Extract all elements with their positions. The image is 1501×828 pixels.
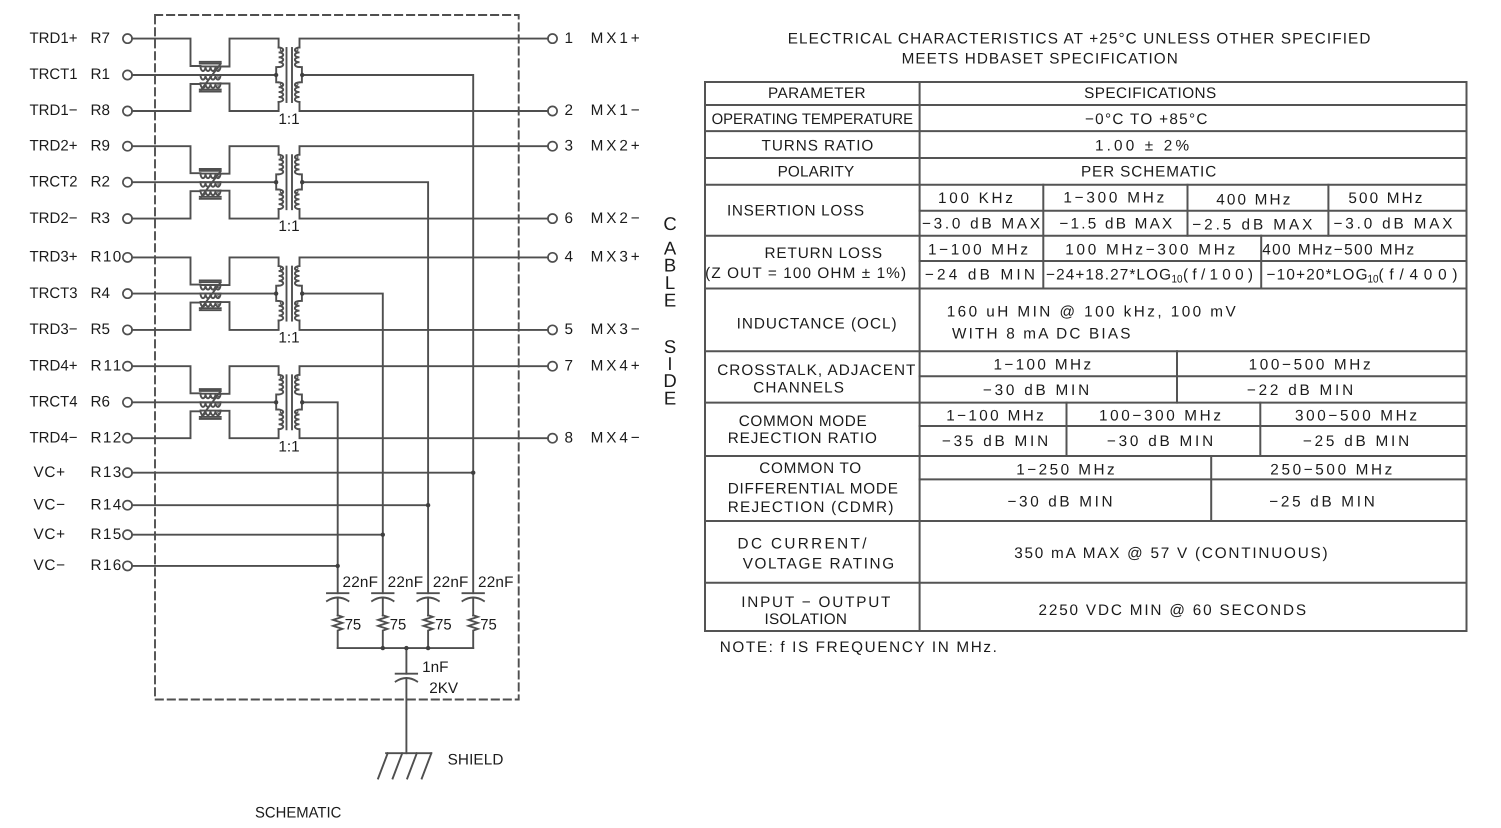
svg-text:−22 dB MIN: −22 dB MIN (1247, 382, 1353, 399)
svg-text:SPECIFICATIONS: SPECIFICATIONS (1084, 85, 1216, 102)
svg-text:PARAMETER: PARAMETER (768, 85, 866, 102)
svg-text:−25 dB MIN: −25 dB MIN (1269, 494, 1375, 511)
svg-text:100 MHz−300 MHz: 100 MHz−300 MHz (1065, 242, 1235, 259)
svg-text:R4: R4 (91, 285, 111, 302)
svg-text:5: 5 (565, 321, 574, 338)
svg-text:22nF: 22nF (433, 574, 469, 591)
svg-text:−25 dB MIN: −25 dB MIN (1303, 433, 1409, 450)
svg-text:TRCT2: TRCT2 (30, 173, 78, 190)
svg-text:MX4−: MX4− (591, 429, 640, 446)
svg-text:−24+18.27*LOG: −24+18.27*LOG (1046, 267, 1171, 284)
svg-text:INSERTION LOSS: INSERTION LOSS (727, 203, 864, 220)
svg-text:TRCT1: TRCT1 (30, 66, 78, 83)
svg-text:TRD3−: TRD3− (30, 321, 78, 338)
svg-text:1:1: 1:1 (278, 218, 299, 235)
svg-text:TRD3+: TRD3+ (30, 249, 78, 266)
svg-text:ELECTRICAL CHARACTERISTICS AT: ELECTRICAL CHARACTERISTICS AT +25°C UNLE… (788, 30, 1371, 47)
svg-text:R5: R5 (91, 321, 111, 338)
svg-text:1:1: 1:1 (278, 438, 299, 455)
svg-text:−2.5 dB MAX: −2.5 dB MAX (1192, 217, 1312, 234)
svg-text:R1: R1 (91, 66, 111, 83)
svg-text:VC+: VC+ (34, 464, 66, 481)
svg-text:OPERATING TEMPERATURE: OPERATING TEMPERATURE (712, 111, 913, 128)
svg-text:TRD2+: TRD2+ (30, 137, 78, 154)
svg-text:75: 75 (345, 617, 362, 634)
svg-text:75: 75 (435, 617, 452, 634)
svg-text:75: 75 (480, 617, 497, 634)
svg-text:TRD4−: TRD4− (30, 429, 78, 446)
svg-text:TRD1−: TRD1− (30, 102, 78, 119)
svg-text:100 KHz: 100 KHz (938, 190, 1013, 207)
svg-text:TRD1+: TRD1+ (30, 30, 78, 47)
svg-text:1−100 MHz: 1−100 MHz (946, 408, 1044, 425)
svg-text:ISOLATION: ISOLATION (765, 611, 847, 628)
svg-text:COMMON MODE: COMMON MODE (739, 413, 867, 430)
svg-text:MX2+: MX2+ (591, 137, 640, 154)
svg-text:DC CURRENT/: DC CURRENT/ (738, 536, 868, 553)
svg-text:CROSSTALK, ADJACENT: CROSSTALK, ADJACENT (717, 362, 915, 379)
svg-text:−30 dB MIN: −30 dB MIN (983, 382, 1089, 399)
svg-text:1:1: 1:1 (278, 111, 299, 128)
svg-text:−0°C TO +85°C: −0°C TO +85°C (1085, 111, 1208, 128)
svg-text:POLARITY: POLARITY (778, 164, 855, 181)
svg-text:−30 dB MIN: −30 dB MIN (1007, 494, 1112, 511)
svg-text:75: 75 (390, 617, 407, 634)
svg-text:160 uH MIN @ 100 kHz, 100 mV: 160 uH MIN @ 100 kHz, 100 mV (947, 303, 1237, 320)
svg-text:TRD4+: TRD4+ (30, 357, 78, 374)
svg-text:PER SCHEMATIC: PER SCHEMATIC (1081, 164, 1216, 181)
svg-text:VC−: VC− (34, 557, 66, 574)
svg-text:MX1+: MX1+ (591, 30, 640, 47)
svg-text:VC−: VC− (34, 496, 66, 513)
svg-text:2: 2 (565, 102, 574, 119)
svg-text:TRCT4: TRCT4 (30, 394, 78, 411)
svg-text:−30 dB MIN: −30 dB MIN (1107, 433, 1213, 450)
svg-text:R10: R10 (91, 249, 122, 266)
svg-text:MX1−: MX1− (591, 102, 640, 119)
svg-text:−10+20*LOG: −10+20*LOG (1267, 267, 1368, 284)
svg-text:R15: R15 (91, 526, 122, 543)
svg-text:2KV: 2KV (429, 680, 459, 697)
svg-text:SCHEMATIC: SCHEMATIC (255, 805, 341, 822)
svg-text:8: 8 (565, 429, 574, 446)
svg-text:6: 6 (565, 210, 574, 227)
svg-text:R2: R2 (91, 173, 111, 190)
svg-text:WITH 8 mA DC BIAS: WITH 8 mA DC BIAS (952, 325, 1130, 342)
svg-text:R13: R13 (91, 464, 122, 481)
svg-text:250−500 MHz: 250−500 MHz (1270, 462, 1392, 479)
svg-text:22nF: 22nF (478, 574, 514, 591)
svg-text:MX3+: MX3+ (591, 249, 640, 266)
svg-text:TRCT3: TRCT3 (30, 285, 78, 302)
svg-text:MX3−: MX3− (591, 321, 640, 338)
svg-text:−1.5 dB MAX: −1.5 dB MAX (1059, 216, 1172, 233)
svg-text:10: 10 (1172, 274, 1183, 286)
svg-text:1−250 MHz: 1−250 MHz (1016, 462, 1114, 479)
svg-text:350 mA MAX @ 57 V (CONTINUOUS): 350 mA MAX @ 57 V (CONTINUOUS) (1014, 545, 1327, 562)
svg-text:22nF: 22nF (388, 574, 424, 591)
svg-text:R11: R11 (91, 357, 122, 374)
svg-text:CHANNELS: CHANNELS (753, 380, 844, 397)
svg-text:COMMON TO: COMMON TO (759, 460, 861, 477)
svg-text:1nF: 1nF (422, 659, 448, 676)
svg-text:R14: R14 (91, 496, 122, 513)
svg-text:R12: R12 (91, 429, 122, 446)
svg-text:VC+: VC+ (34, 526, 66, 543)
svg-text:MEETS HDBASET SPECIFICATION: MEETS HDBASET SPECIFICATION (902, 51, 1178, 68)
svg-text:SHIELD: SHIELD (448, 752, 504, 769)
svg-text:R6: R6 (91, 394, 111, 411)
svg-text:R8: R8 (91, 102, 111, 119)
svg-text:3: 3 (565, 137, 574, 154)
svg-text:10: 10 (1368, 274, 1379, 286)
svg-text:INPUT − OUTPUT: INPUT − OUTPUT (741, 594, 890, 611)
svg-text:RETURN LOSS: RETURN LOSS (765, 245, 883, 262)
svg-text:1:1: 1:1 (278, 330, 299, 347)
svg-text:−3.0 dB MAX: −3.0 dB MAX (922, 216, 1040, 233)
svg-text:R7: R7 (91, 30, 111, 47)
svg-text:−35 dB MIN: −35 dB MIN (942, 433, 1048, 450)
svg-text:−24 dB MIN: −24 dB MIN (925, 267, 1035, 284)
svg-text:R3: R3 (91, 210, 111, 227)
svg-text:−3.0 dB MAX: −3.0 dB MAX (1334, 216, 1453, 233)
svg-text:1−100 MHz: 1−100 MHz (928, 242, 1028, 259)
svg-text:1−300 MHz: 1−300 MHz (1063, 190, 1164, 207)
svg-text:R16: R16 (91, 557, 122, 574)
svg-text:22nF: 22nF (343, 574, 379, 591)
svg-text:E: E (664, 289, 676, 310)
svg-text:C: C (663, 213, 676, 234)
svg-text:1: 1 (565, 30, 574, 47)
svg-text:E: E (664, 387, 676, 408)
svg-text:REJECTION (CDMR): REJECTION (CDMR) (728, 499, 894, 516)
svg-text:4: 4 (565, 249, 574, 266)
svg-text:1−100 MHz: 1−100 MHz (994, 357, 1092, 374)
svg-text:REJECTION RATIO: REJECTION RATIO (728, 430, 877, 447)
svg-text:100−500 MHz: 100−500 MHz (1249, 357, 1371, 374)
svg-text:TURNS RATIO: TURNS RATIO (762, 138, 874, 155)
svg-text:100−300 MHz: 100−300 MHz (1099, 408, 1221, 425)
svg-text:VOLTAGE RATING: VOLTAGE RATING (743, 556, 894, 573)
svg-text:INDUCTANCE (OCL): INDUCTANCE (OCL) (737, 315, 897, 332)
svg-text:TRD2−: TRD2− (30, 210, 78, 227)
svg-text:MX4+: MX4+ (591, 357, 640, 374)
svg-text:400 MHz−500 MHz: 400 MHz−500 MHz (1262, 242, 1414, 259)
svg-text:300−500 MHz: 300−500 MHz (1295, 408, 1417, 425)
svg-text:R9: R9 (91, 137, 111, 154)
svg-text:7: 7 (565, 357, 574, 374)
svg-text:MX2−: MX2− (591, 210, 640, 227)
svg-text:(Z OUT = 100 OHM ± 1%): (Z OUT = 100 OHM ± 1%) (705, 265, 906, 282)
svg-text:DIFFERENTIAL MODE: DIFFERENTIAL MODE (728, 481, 898, 498)
